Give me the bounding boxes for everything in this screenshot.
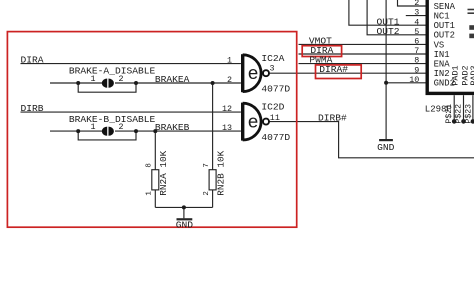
svg-text:BRAKEB: BRAKEB [155, 122, 190, 133]
svg-text:8: 8 [146, 163, 154, 168]
svg-text:10: 10 [409, 75, 419, 85]
svg-text:OUT2: OUT2 [377, 26, 400, 37]
svg-text:BRAKE-B_DISABLE: BRAKE-B_DISABLE [69, 114, 156, 125]
svg-text:RN2B 10K: RN2B 10K [215, 150, 226, 195]
svg-text:7: 7 [414, 46, 419, 56]
svg-text:3: 3 [270, 63, 275, 73]
svg-text:GND: GND [176, 220, 194, 231]
svg-text:RN2A 10K: RN2A 10K [158, 150, 169, 195]
svg-text:SENA: SENA [434, 2, 456, 12]
svg-text:12: 12 [222, 104, 232, 114]
svg-text:4077D: 4077D [261, 132, 290, 143]
svg-text:5: 5 [414, 27, 419, 37]
svg-text:GND: GND [377, 142, 395, 153]
svg-text:11: 11 [270, 113, 280, 123]
svg-text:4077D: 4077D [261, 84, 290, 95]
svg-text:2: 2 [227, 75, 232, 85]
svg-text:DIRB: DIRB [21, 103, 44, 114]
svg-text:1: 1 [227, 55, 232, 65]
svg-text:8: 8 [414, 56, 419, 66]
svg-text:IN2: IN2 [434, 69, 450, 79]
svg-text:OUT1: OUT1 [434, 21, 455, 31]
svg-text:2: 2 [118, 122, 123, 132]
svg-text:ENA: ENA [434, 60, 451, 70]
svg-text:PAD3: PAD3 [469, 65, 474, 85]
svg-text:DIRA#: DIRA# [319, 64, 348, 75]
svg-text:9: 9 [414, 65, 419, 75]
svg-text:13: 13 [222, 123, 232, 133]
svg-text:DIRA: DIRA [21, 55, 44, 66]
svg-text:IN1: IN1 [434, 50, 450, 60]
svg-text:e: e [248, 64, 259, 85]
svg-text:PAD1: PAD1 [450, 65, 460, 85]
svg-text:P$21: P$21 [444, 104, 454, 124]
svg-text:4: 4 [414, 17, 419, 27]
svg-text:1: 1 [90, 122, 95, 132]
svg-text:3: 3 [414, 8, 419, 18]
svg-text:BRAKEA: BRAKEA [155, 74, 190, 85]
svg-text:VS: VS [434, 40, 445, 50]
svg-text:1: 1 [146, 191, 154, 196]
svg-text:7: 7 [203, 163, 211, 168]
svg-text:P$22: P$22 [453, 104, 463, 124]
svg-text:1: 1 [90, 74, 95, 84]
svg-text:2: 2 [118, 74, 123, 84]
svg-text:BRAKE-A_DISABLE: BRAKE-A_DISABLE [69, 65, 156, 76]
svg-text:e: e [248, 112, 259, 133]
svg-text:NC1: NC1 [434, 12, 450, 22]
svg-text:6: 6 [414, 37, 419, 47]
svg-text:IC2D: IC2D [261, 102, 284, 113]
svg-text:DIRB#: DIRB# [318, 113, 347, 124]
svg-text:OUT2: OUT2 [434, 31, 455, 41]
svg-text:2: 2 [203, 191, 211, 196]
svg-text:P$23: P$23 [464, 104, 474, 124]
